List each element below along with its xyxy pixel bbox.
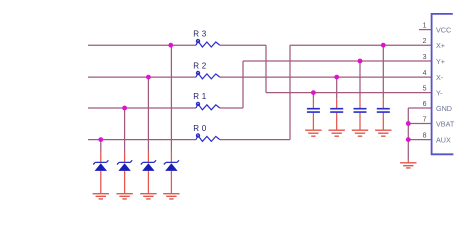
svg-text:4: 4 bbox=[423, 70, 427, 77]
svg-text:Y-: Y- bbox=[436, 89, 443, 98]
svg-text:7: 7 bbox=[423, 117, 427, 124]
svg-text:GND: GND bbox=[436, 104, 452, 113]
svg-text:X+: X+ bbox=[436, 41, 445, 50]
svg-text:VCC: VCC bbox=[436, 26, 451, 35]
svg-text:R2: R2 bbox=[193, 61, 209, 70]
svg-text:1: 1 bbox=[423, 23, 427, 30]
svg-text:VBAT: VBAT bbox=[436, 120, 455, 129]
svg-text:2: 2 bbox=[423, 38, 427, 45]
svg-text:AUX: AUX bbox=[436, 136, 451, 145]
svg-text:8: 8 bbox=[423, 133, 427, 140]
svg-text:5: 5 bbox=[423, 86, 427, 93]
svg-text:6: 6 bbox=[423, 101, 427, 108]
svg-text:R1: R1 bbox=[193, 92, 209, 101]
svg-text:3: 3 bbox=[423, 54, 427, 61]
svg-text:R3: R3 bbox=[193, 29, 209, 38]
svg-text:Y+: Y+ bbox=[436, 57, 445, 66]
svg-text:R0: R0 bbox=[193, 124, 209, 133]
svg-text:X-: X- bbox=[436, 73, 444, 82]
